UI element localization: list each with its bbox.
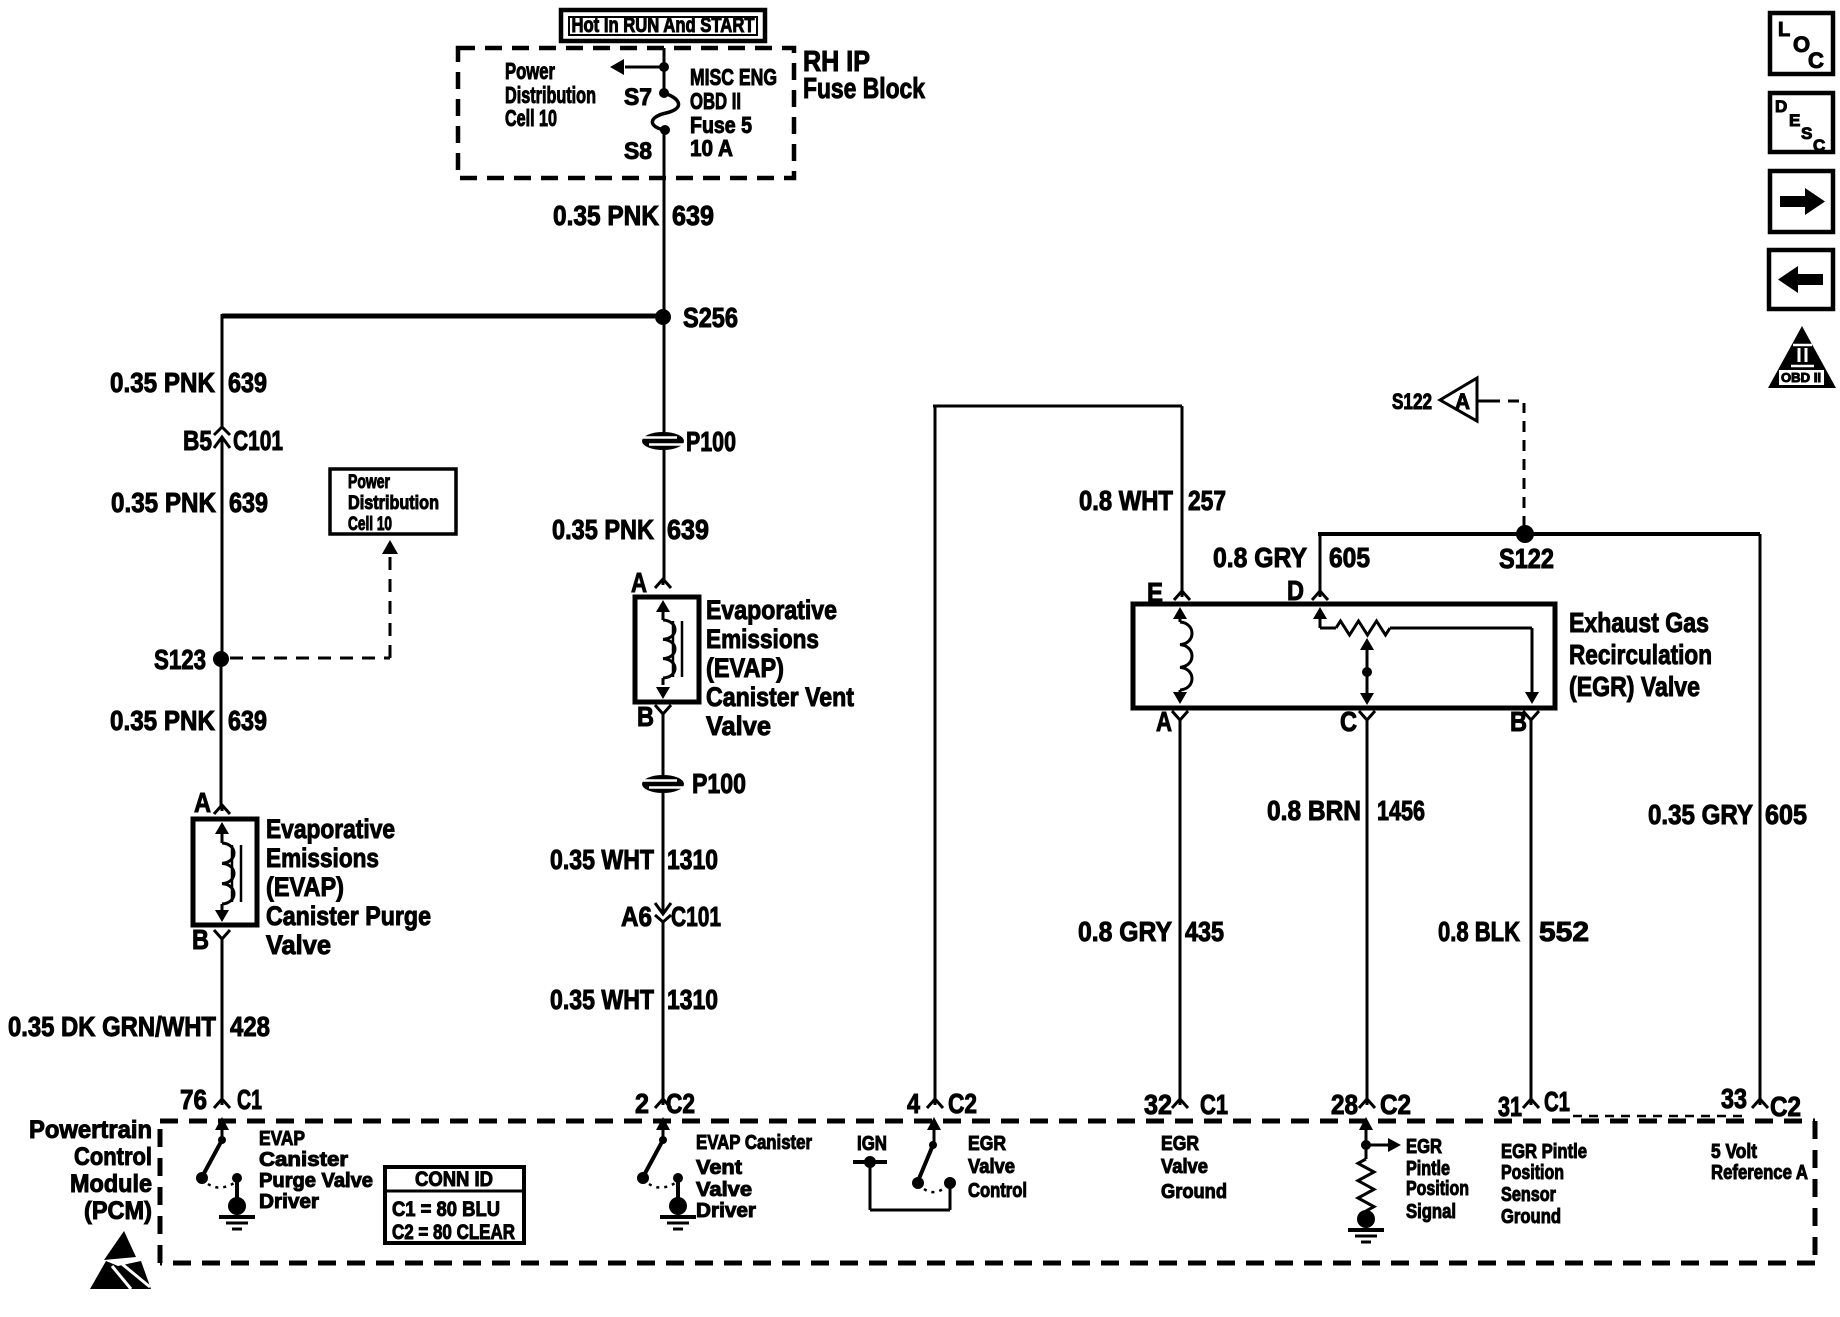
svg-text:Canister Purge: Canister Purge	[266, 901, 431, 931]
svg-text:0.35 WHT: 0.35 WHT	[550, 844, 654, 875]
off-page reference triangle A (S122)	[1392, 378, 1489, 421]
svg-text:IGN: IGN	[857, 1133, 887, 1155]
wire purge valve to PCM pin 76	[221, 938, 224, 1099]
pin D of EGR valve	[1287, 575, 1328, 606]
svg-text:Pintle: Pintle	[1406, 1158, 1450, 1180]
svg-text:0.8 GRY: 0.8 GRY	[1078, 916, 1172, 947]
svg-text:0.35 PNK: 0.35 PNK	[110, 367, 215, 398]
svg-text:C2 = 80 CLEAR: C2 = 80 CLEAR	[392, 1221, 515, 1244]
svg-text:Fuse Block: Fuse Block	[803, 73, 926, 105]
label EGR Pintle Position Sensor Ground	[1501, 1141, 1587, 1228]
svg-text:Evaporative: Evaporative	[266, 814, 395, 844]
wire C101 to PCM pin 2	[662, 922, 665, 1099]
svg-text:EGR: EGR	[968, 1133, 1006, 1155]
svg-text:2: 2	[635, 1088, 649, 1119]
svg-text:Control: Control	[968, 1180, 1027, 1202]
wire S256 to left column	[222, 314, 663, 319]
PCM pin 4 connector C2	[907, 1088, 977, 1119]
svg-text:Signal: Signal	[1406, 1201, 1456, 1223]
connector C101 pin A6	[621, 890, 721, 932]
svg-text:E: E	[1789, 111, 1800, 130]
svg-text:Cell 10: Cell 10	[348, 514, 392, 535]
svg-text:C101: C101	[233, 425, 283, 456]
wire P100 to vent valve	[663, 450, 666, 580]
forward arrow button	[1770, 171, 1833, 232]
svg-text:S7: S7	[624, 84, 652, 111]
svg-text:C2: C2	[1770, 1091, 1801, 1122]
wire S8 to S256	[663, 130, 666, 316]
label EGR Valve Ground	[1161, 1133, 1227, 1203]
svg-text:Power: Power	[348, 472, 390, 493]
svg-text:S: S	[1801, 124, 1812, 143]
svg-text:639: 639	[672, 200, 714, 231]
svg-text:S122: S122	[1392, 389, 1432, 414]
svg-text:Driver: Driver	[259, 1191, 319, 1213]
svg-text:EGR Pintle: EGR Pintle	[1501, 1141, 1587, 1163]
svg-text:(EGR) Valve: (EGR) Valve	[1569, 671, 1700, 702]
svg-text:Canister: Canister	[259, 1149, 348, 1171]
PCM pin 28 connector C2	[1331, 1089, 1411, 1120]
svg-text:0.8 WHT: 0.8 WHT	[1079, 485, 1173, 516]
svg-text:1456: 1456	[1377, 795, 1425, 826]
label Evaporative Emissions (EVAP) Canister Purge Valve	[266, 814, 431, 960]
EVAP canister vent valve driver	[637, 1117, 696, 1229]
label EVAP Canister Purge Valve Driver	[259, 1128, 373, 1213]
fuse MISC ENG OBD II Fuse 5	[652, 93, 678, 130]
PCM pin 2 connector C2	[635, 1088, 695, 1119]
arrow to power distribution	[610, 59, 669, 75]
pin A of EGR valve	[1156, 706, 1188, 737]
svg-text:P100: P100	[692, 768, 746, 799]
wire label 0.35 PNK 639	[552, 514, 709, 545]
grommet P100 (lower)	[642, 768, 746, 799]
wire label 0.8 BLK 552	[1438, 916, 1589, 947]
svg-text:0.8 BRN: 0.8 BRN	[1267, 795, 1361, 826]
power distribution cell 10 reference box	[330, 469, 456, 535]
label MISC ENG OBD II Fuse 5 10 A	[690, 64, 777, 161]
svg-text:A6: A6	[621, 901, 652, 932]
svg-text:Valve: Valve	[696, 1179, 752, 1201]
wire label 0.8 WHT 257	[1079, 485, 1226, 516]
svg-text:EGR: EGR	[1406, 1136, 1442, 1158]
svg-text:B: B	[1510, 706, 1527, 737]
label EGR Pintle Position Signal	[1406, 1136, 1469, 1223]
svg-text:Valve: Valve	[706, 711, 771, 741]
svg-text:Valve: Valve	[1161, 1156, 1208, 1178]
svg-text:Driver: Driver	[696, 1200, 756, 1222]
PCM pin 33 connector C2	[1721, 1083, 1801, 1122]
svg-text:Position: Position	[1501, 1162, 1564, 1184]
label Power Distribution Cell 10 (fuse block)	[505, 58, 596, 131]
svg-text:A: A	[194, 787, 211, 818]
svg-text:605: 605	[1765, 799, 1807, 830]
svg-text:B: B	[637, 701, 654, 732]
svg-text:Emissions: Emissions	[266, 843, 379, 873]
svg-text:0.8 BLK: 0.8 BLK	[1438, 916, 1520, 947]
svg-text:Distribution: Distribution	[348, 493, 439, 514]
svg-text:33: 33	[1721, 1083, 1747, 1114]
svg-text:Recirculation: Recirculation	[1569, 639, 1712, 670]
svg-text:552: 552	[1539, 916, 1589, 947]
wire label 0.35 GRY 605	[1648, 799, 1807, 830]
svg-text:(PCM): (PCM)	[84, 1197, 152, 1225]
svg-text:Canister Vent: Canister Vent	[706, 682, 854, 712]
wire S123 to purge valve	[220, 659, 223, 806]
label EGR Valve Control	[968, 1133, 1027, 1202]
EGR valve control switch	[853, 1117, 956, 1210]
svg-text:Ground: Ground	[1161, 1181, 1227, 1203]
label Exhaust Gas Recirculation (EGR) Valve	[1569, 607, 1712, 702]
pin B of EVAP purge valve	[192, 924, 230, 955]
RH IP Fuse Block box (dashed)	[458, 48, 794, 178]
wire EGR pin C to PCM pin 28	[1366, 719, 1369, 1099]
svg-text:5 Volt: 5 Volt	[1711, 1141, 1757, 1163]
wire label 0.35 PNK 639	[553, 200, 714, 231]
svg-text:639: 639	[667, 514, 709, 545]
svg-text:428: 428	[230, 1011, 270, 1042]
svg-text:B5: B5	[183, 425, 212, 456]
dashed link pin31 to pin33	[1573, 1115, 1747, 1118]
pin E of EGR valve	[1147, 577, 1190, 608]
pin A of EVAP purge valve	[194, 787, 230, 818]
wire label 0.8 GRY 605	[1213, 542, 1370, 573]
wire from banner into fuse block	[663, 48, 666, 93]
svg-text:Purge Valve: Purge Valve	[259, 1170, 373, 1192]
svg-text:1310: 1310	[667, 844, 718, 875]
svg-text:257: 257	[1188, 485, 1226, 516]
svg-text:4: 4	[907, 1088, 920, 1119]
svg-text:D: D	[1775, 97, 1787, 116]
wire label 0.8 BRN 1456	[1267, 795, 1425, 826]
svg-text:C: C	[1808, 48, 1824, 73]
svg-text:0.35 PNK: 0.35 PNK	[553, 200, 659, 231]
wire P100 to C101	[662, 793, 665, 914]
svg-text:CONN ID: CONN ID	[415, 1168, 493, 1191]
svg-text:32: 32	[1144, 1089, 1172, 1120]
svg-text:C2: C2	[666, 1088, 695, 1119]
pin C of EGR valve	[1340, 706, 1375, 737]
svg-text:Powertrain: Powertrain	[29, 1116, 152, 1144]
S122 bus wire	[1318, 532, 1760, 536]
svg-text:Hot In RUN And START: Hot In RUN And START	[572, 14, 755, 37]
svg-text:A: A	[1156, 706, 1172, 737]
PCM pin 32 connector C1	[1144, 1089, 1228, 1120]
svg-text:A: A	[631, 567, 647, 598]
svg-text:435: 435	[1185, 916, 1224, 947]
svg-text:C: C	[1813, 136, 1825, 155]
label RH IP Fuse Block	[803, 46, 926, 105]
EVAP canister purge valve driver	[196, 1117, 255, 1229]
svg-text:639: 639	[228, 367, 267, 398]
svg-text:P100: P100	[686, 426, 736, 457]
wire EGR pin A to PCM pin 32	[1179, 719, 1182, 1099]
svg-text:Cell 10: Cell 10	[505, 105, 557, 131]
svg-text:C1: C1	[237, 1084, 262, 1115]
svg-text:S123: S123	[154, 644, 206, 675]
pin A of EVAP vent valve	[631, 567, 671, 598]
ESD sensitivity symbol	[90, 1231, 151, 1289]
svg-text:OBD II: OBD II	[1781, 370, 1821, 385]
back arrow button	[1769, 250, 1833, 309]
svg-text:Valve: Valve	[968, 1156, 1015, 1178]
svg-text:Power: Power	[505, 58, 555, 84]
pin B of EVAP vent valve	[637, 701, 671, 732]
label 5 Volt Reference A	[1711, 1141, 1808, 1184]
Hot In RUN And START banner	[561, 10, 765, 41]
node S8	[624, 125, 670, 165]
wire label 0.35 PNK 639	[111, 487, 268, 518]
EGR pintle position potentiometer	[1313, 607, 1539, 704]
svg-text:C: C	[1340, 706, 1357, 737]
svg-text:10 A: 10 A	[690, 135, 733, 161]
wire label 0.35 PNK 639	[110, 367, 267, 398]
PCM pin 31 connector C1	[1498, 1086, 1570, 1122]
wire PCM pin 4 up and over to EGR pin E	[933, 406, 1182, 1099]
wire vent valve to P100	[662, 713, 665, 776]
wire label 0.8 GRY 435	[1078, 916, 1224, 947]
svg-text:Exhaust Gas: Exhaust Gas	[1569, 607, 1709, 638]
svg-text:0.35 PNK: 0.35 PNK	[552, 514, 654, 545]
svg-text:0.35 DK GRN/WHT: 0.35 DK GRN/WHT	[8, 1011, 216, 1042]
DESC button	[1770, 93, 1833, 155]
svg-text:(EVAP): (EVAP)	[706, 653, 784, 683]
svg-text:(EVAP): (EVAP)	[266, 872, 344, 902]
svg-text:0.8 GRY: 0.8 GRY	[1213, 542, 1307, 573]
svg-text:0.35 PNK: 0.35 PNK	[111, 487, 216, 518]
wire label 0.35 WHT 1310	[550, 984, 718, 1015]
svg-text:Vent: Vent	[696, 1157, 742, 1179]
label Powertrain Control Module (PCM)	[29, 1116, 152, 1225]
wire EGR pin B to PCM pin 31	[1530, 719, 1533, 1099]
wire label 0.35 PNK 639	[110, 705, 267, 736]
svg-text:1310: 1310	[667, 984, 718, 1015]
potentiometer wiper	[1360, 638, 1374, 705]
svg-text:OBD II: OBD II	[690, 88, 741, 114]
svg-text:Control: Control	[74, 1143, 152, 1171]
svg-text:EVAP Canister: EVAP Canister	[696, 1132, 812, 1154]
wire EGR pin D up to S122 bus	[1319, 534, 1322, 592]
svg-text:C1: C1	[1544, 1086, 1570, 1117]
svg-text:S8: S8	[624, 138, 652, 165]
PCM pin 76 connector C1	[180, 1084, 262, 1115]
EGR pintle position signal network	[1348, 1117, 1401, 1242]
svg-text:31: 31	[1498, 1091, 1522, 1122]
svg-text:28: 28	[1331, 1089, 1358, 1120]
pin B of EGR valve	[1510, 706, 1539, 737]
svg-text:S122: S122	[1499, 543, 1554, 574]
svg-text:Module: Module	[70, 1170, 152, 1198]
svg-text:Emissions: Emissions	[706, 624, 819, 654]
svg-text:EGR: EGR	[1161, 1133, 1199, 1155]
wire S256 branch down left	[221, 314, 224, 427]
wire S122 to PCM pin 33	[1759, 534, 1762, 1099]
svg-text:Sensor: Sensor	[1501, 1184, 1556, 1206]
EGR solenoid coil E-A	[1173, 607, 1192, 704]
splice S122	[1499, 525, 1554, 574]
svg-text:D: D	[1287, 575, 1304, 606]
wire C101 to S123	[221, 452, 224, 658]
CONN ID table	[385, 1167, 524, 1244]
node S7	[624, 84, 669, 111]
svg-text:C1: C1	[1200, 1089, 1228, 1120]
svg-text:Valve: Valve	[266, 930, 331, 960]
svg-text:Position: Position	[1406, 1178, 1469, 1200]
grommet P100	[642, 426, 736, 457]
svg-text:Evaporative: Evaporative	[706, 595, 837, 625]
svg-text:639: 639	[228, 705, 267, 736]
exhaust gas recirculation (EGR) valve box	[1133, 604, 1555, 708]
connector C101 pin B5	[183, 425, 283, 456]
svg-text:C1 = 80 BLU: C1 = 80 BLU	[392, 1198, 500, 1221]
svg-text:0.35 PNK: 0.35 PNK	[110, 705, 215, 736]
svg-text:605: 605	[1329, 542, 1370, 573]
label Evaporative Emissions (EVAP) Canister Vent Valve	[706, 595, 854, 741]
svg-text:S256: S256	[683, 302, 738, 333]
label IGN	[857, 1133, 887, 1155]
splice S123	[154, 644, 229, 675]
splice S256	[655, 302, 738, 333]
wire label 0.35 DK GRN/WHT 428	[8, 1011, 270, 1042]
svg-text:Reference A: Reference A	[1711, 1162, 1808, 1184]
svg-text:A: A	[1455, 389, 1470, 414]
powertrain control module (PCM) box (dashed)	[160, 1121, 1815, 1263]
wire S256 to P100	[663, 318, 666, 432]
svg-text:Ground: Ground	[1501, 1206, 1561, 1228]
svg-text:EVAP: EVAP	[259, 1128, 305, 1150]
EVAP canister purge valve (solenoid)	[193, 819, 257, 925]
OBD II triangle icon	[1768, 326, 1836, 388]
svg-text:C2: C2	[948, 1088, 977, 1119]
svg-text:C2: C2	[1380, 1089, 1411, 1120]
label EVAP Canister Vent Valve Driver	[696, 1132, 812, 1222]
svg-text:L: L	[1778, 19, 1790, 41]
svg-text:C101: C101	[671, 901, 721, 932]
wire label 0.35 WHT 1310	[550, 844, 718, 875]
svg-text:B: B	[192, 924, 209, 955]
LOC button	[1770, 13, 1833, 74]
svg-text:0.35 GRY: 0.35 GRY	[1648, 799, 1753, 830]
svg-text:76: 76	[180, 1084, 207, 1115]
EVAP canister vent valve (solenoid)	[635, 597, 699, 702]
svg-text:0.35 WHT: 0.35 WHT	[550, 984, 654, 1015]
svg-text:MISC ENG: MISC ENG	[690, 64, 777, 90]
svg-text:639: 639	[229, 487, 268, 518]
dashed reference wire S123 to power distribution	[230, 540, 398, 658]
dashed reference to triangle A	[1489, 401, 1524, 527]
